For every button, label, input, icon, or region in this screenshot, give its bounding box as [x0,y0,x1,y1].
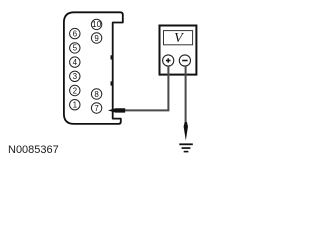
pin 3 [70,71,80,81]
probe arrowhead at ground (downward wedge) [184,122,188,141]
pin 4 [70,57,80,67]
pin 8 [91,89,101,99]
svg-text:V: V [174,31,184,46]
svg-text:6: 6 [73,29,78,38]
ground symbol G1 [179,143,193,152]
pin 10 [91,19,101,29]
wire positive lead (down from + terminal, left to pin 7) [125,66,168,111]
connector index tab upper (right edge tick) [111,55,113,59]
connector J1 (10-pin) body outline [64,12,123,124]
svg-text:3: 3 [73,72,78,81]
pin 7 [91,103,101,113]
svg-text:2: 2 [73,86,78,95]
voltmeter negative terminal [179,55,190,66]
svg-text:8: 8 [94,90,99,99]
svg-text:1: 1 [73,101,78,110]
svg-text:7: 7 [94,104,99,113]
connector index tab lower (right edge tick) [111,81,113,85]
pin 5 [70,43,80,53]
pin 1 [70,100,80,110]
pin 9 [91,33,101,43]
svg-text:5: 5 [73,44,78,53]
svg-text:10: 10 [92,20,101,29]
pin 6 [70,28,80,38]
svg-text:9: 9 [94,34,99,43]
voltmeter M1 display window [164,31,193,45]
probe arrowhead at pin 7 [108,108,125,112]
wire negative lead (down from - terminal to ground) [185,66,187,124]
svg-text:4: 4 [73,58,78,67]
voltmeter positive terminal [163,55,174,66]
voltmeter M1 body [160,26,197,75]
pin 2 [70,85,80,95]
svg-text:N0085367: N0085367 [8,144,59,156]
